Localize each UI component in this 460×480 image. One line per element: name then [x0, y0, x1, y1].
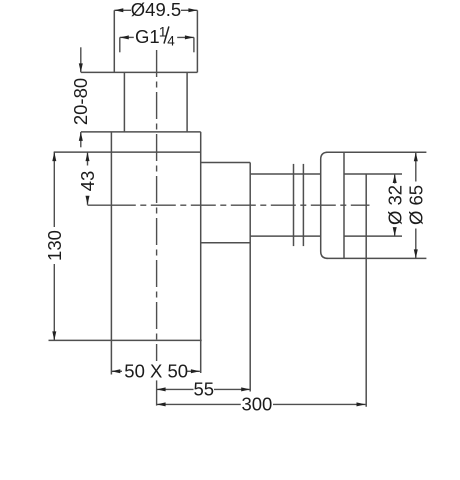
wall nut right edge [343, 152, 345, 258]
arrow 300 left [157, 402, 166, 406]
arrow 43 top [86, 152, 90, 161]
wall pipe end edge with lower extension [365, 174, 367, 407]
dimension 50 X 50 [111, 370, 200, 372]
arrow 20-80 bottom [79, 132, 83, 141]
arrow Ø65 top [414, 152, 418, 161]
outlet block top edge [201, 162, 251, 164]
dimension 20-80 [80, 47, 82, 147]
svg-text:4: 4 [167, 34, 175, 49]
dimension Ø49.5 [114, 9, 197, 11]
outlet pipe bottom edge [250, 235, 321, 237]
compression ring line 1 [293, 164, 295, 246]
svg-text:50 X 50: 50 X 50 [124, 360, 188, 381]
outlet pipe top edge [250, 173, 321, 175]
arrow 300 right [357, 402, 366, 406]
arrow 20-80 top [79, 63, 83, 72]
top nut right edge [196, 10, 198, 72]
wall nut rounded left edge [321, 152, 328, 258]
arrow Ø65 bottom [414, 249, 418, 258]
svg-text:Ø49.5: Ø49.5 [131, 0, 181, 20]
svg-text:Ø 32: Ø 32 [384, 185, 405, 225]
svg-text:300: 300 [241, 394, 272, 415]
dimension G1 1/4 [120, 37, 194, 52]
wall pipe stub top edge with right extension [344, 173, 402, 175]
horizontal centerline solid left extension [88, 204, 111, 206]
arrow 130 top [52, 152, 56, 161]
outlet block right edge with lower extension [249, 163, 251, 392]
arrow G1 right [185, 35, 194, 39]
cup left edge with lower extension [110, 132, 112, 375]
top nut bottom edge with left extension [81, 71, 197, 73]
outlet block bottom edge [201, 242, 251, 244]
cup right edge with lower extension [200, 132, 202, 373]
svg-text:130: 130 [44, 230, 65, 261]
svg-text:Ø 65: Ø 65 [405, 185, 426, 225]
dimension 43 [87, 152, 89, 205]
arrow 130 bottom [52, 331, 56, 340]
dimension 300 [157, 403, 366, 405]
dimension 55 [157, 388, 251, 390]
svg-text:G1: G1 [135, 26, 160, 47]
top nut left edge [113, 10, 115, 72]
dimension Ø32 [394, 174, 396, 236]
wall nut top edge with right extension [326, 151, 426, 153]
arrow Ø32 top [393, 174, 397, 183]
wall nut bottom edge with right extension [326, 257, 426, 259]
arrow 50x50 right [191, 369, 200, 373]
fraction slash [164, 26, 169, 43]
arrow Ø49.5 left [114, 8, 123, 12]
arrow 55 right [241, 387, 250, 391]
vertical centerline dashed [156, 50, 158, 361]
wall pipe stub bottom edge with right extension [344, 235, 402, 237]
cup shoulder line with left extension [54, 151, 201, 153]
cup top edge with left extension [81, 131, 201, 133]
svg-text:55: 55 [194, 379, 215, 400]
vertical centerline solid lower connector [156, 380, 158, 405]
cup bottom edge with left extension [49, 339, 202, 341]
arrow 50x50 left [111, 369, 120, 373]
arrow Ø32 bottom [393, 227, 397, 236]
arrow 43 bottom [86, 196, 90, 205]
dimension 130 [53, 152, 55, 340]
svg-text:43: 43 [77, 171, 98, 192]
arrow G1 left [120, 35, 129, 39]
arrow 55 left [157, 387, 166, 391]
svg-text:20-80: 20-80 [70, 78, 91, 125]
compression ring line 2 [302, 164, 304, 246]
inlet tube left edge [123, 72, 125, 131]
horizontal centerline dashed [111, 204, 370, 206]
dimension Ø65 [415, 152, 417, 258]
inlet tube right edge [186, 72, 188, 131]
arrow Ø49.5 right [188, 8, 197, 12]
